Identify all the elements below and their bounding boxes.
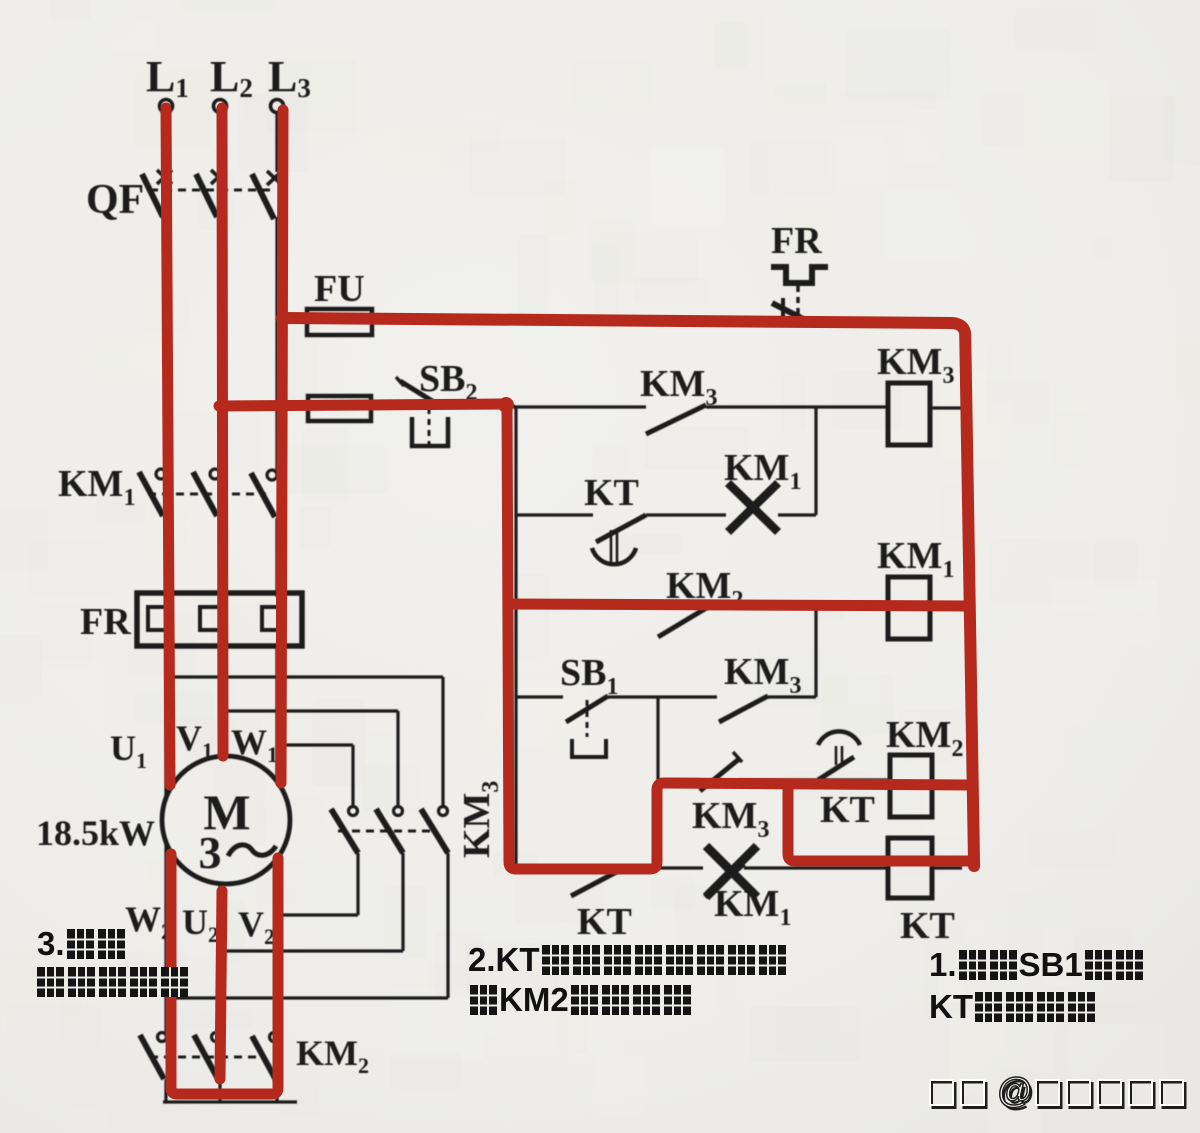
svg-text:FR: FR: [771, 220, 822, 262]
svg-text:KT: KT: [900, 905, 955, 947]
svg-text:FU: FU: [314, 268, 365, 310]
svg-text:FR: FR: [80, 601, 131, 643]
svg-text:QF: QF: [86, 177, 144, 223]
svg-text:KT: KT: [584, 472, 639, 514]
svg-text:KT: KT: [820, 789, 875, 831]
svg-text:3: 3: [199, 827, 222, 878]
svg-text:KT: KT: [577, 901, 632, 943]
svg-text:18.5kW: 18.5kW: [36, 813, 155, 853]
